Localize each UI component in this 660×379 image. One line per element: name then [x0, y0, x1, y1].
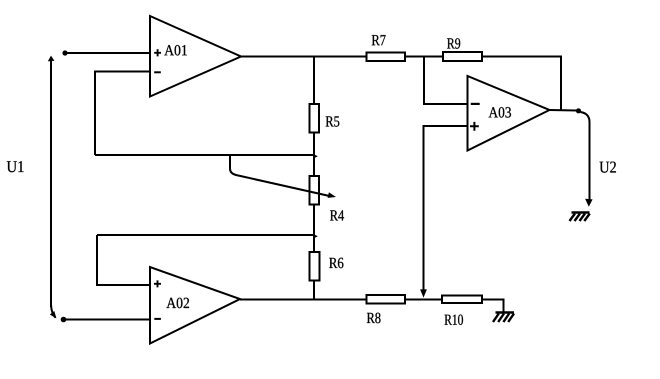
node IN+ (top input terminal dot) — [62, 50, 67, 55]
wire R9 to feedback corner — [482, 57, 561, 111]
wire R4 wiper arrow — [230, 155, 336, 198]
resistor R5 — [310, 104, 340, 133]
wire A03 output — [550, 109, 578, 112]
node IN- (bottom input terminal dot) — [61, 317, 67, 323]
arrow U2 down — [585, 199, 593, 207]
wire node to A03 inverting input — [424, 57, 468, 105]
wire U2 drop — [581, 112, 590, 200]
wire middle column segment 4 — [313, 281, 315, 300]
wire middle column segment 3 — [313, 205, 315, 253]
ground G2 (after R10) — [493, 313, 514, 323]
wire between R8 and R10 — [405, 299, 442, 301]
wire middle column segment 1 — [313, 57, 315, 105]
wire A02 output rail — [240, 299, 367, 301]
resistor R7 — [367, 35, 406, 61]
wire R10 to ground — [482, 300, 504, 313]
label U2 — [600, 162, 616, 173]
voltage source U1 — [7, 56, 57, 319]
resistor R10 — [442, 296, 482, 326]
wire A03 non-inverting input — [424, 126, 468, 291]
node output terminal dot — [576, 108, 581, 113]
resistor R8 — [367, 295, 406, 323]
resistor R9 — [443, 38, 482, 61]
wire bottom input to A02 - — [65, 319, 150, 321]
wire A01 inverting input — [95, 72, 150, 156]
op-amp A03 — [468, 76, 550, 151]
resistor R6 — [310, 252, 344, 281]
wire feedback rail 1 — [95, 154, 314, 156]
wire A01 output rail — [241, 56, 367, 58]
resistor R4 (potentiometer) — [310, 176, 345, 221]
wire middle column segment 2 — [313, 133, 315, 177]
wire feedback rail 2 — [97, 234, 314, 236]
op-amp A01 — [150, 16, 241, 97]
arrow down into R8/R10 junction — [420, 289, 427, 297]
node rail1-column junction nub — [314, 154, 318, 158]
ground G1 (below U2 arrow) — [570, 213, 590, 222]
wire A02 non-inverting input — [97, 235, 150, 285]
wire top input to A01 + — [66, 52, 150, 54]
wire between R7 and R9 — [405, 56, 443, 58]
op-amp A02 — [150, 267, 240, 344]
node rail2-column junction nub — [314, 234, 318, 238]
